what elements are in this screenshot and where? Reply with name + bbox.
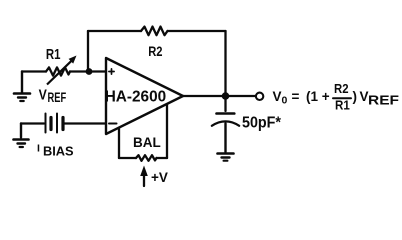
output wire from op-amp to terminal bbox=[183, 95, 256, 97]
wire R1 left lead bbox=[22, 70, 46, 72]
+V arrow head bbox=[140, 166, 148, 177]
svg-text:0: 0 bbox=[282, 95, 288, 107]
+V arrow shaft bbox=[143, 174, 145, 186]
svg-text:R2: R2 bbox=[334, 82, 349, 96]
ground under battery bbox=[14, 138, 29, 141]
svg-text:REF: REF bbox=[48, 90, 67, 105]
wire left vertical from node A to top wire bbox=[87, 31, 89, 72]
output terminal open circle bbox=[256, 93, 263, 100]
wire top feedback left segment bbox=[88, 30, 141, 32]
wire capacitor to ground bbox=[224, 124, 226, 153]
svg-text:(1 +: (1 + bbox=[306, 89, 330, 104]
svg-text:R1: R1 bbox=[46, 46, 61, 63]
wire battery left lead bbox=[21, 122, 44, 124]
op-amp + input mark bbox=[109, 69, 114, 74]
op-amp - input mark bbox=[109, 123, 117, 125]
node B junction dot bbox=[222, 92, 230, 100]
svg-text:HA-2600: HA-2600 bbox=[105, 88, 167, 105]
svg-text:R2: R2 bbox=[148, 43, 162, 59]
capacitor C top plate bbox=[217, 112, 235, 115]
resistor R2 bbox=[141, 27, 168, 36]
BAL box left side bbox=[118, 128, 120, 158]
wire feedback right vertical bbox=[224, 31, 226, 96]
svg-text:V: V bbox=[39, 88, 47, 104]
wire BAL box bottom right segment bbox=[157, 157, 168, 159]
resistor R1 (variable) bbox=[46, 67, 70, 75]
op-amp U1 triangle bbox=[106, 58, 183, 134]
node A junction dot bbox=[86, 68, 93, 75]
BAL box bottom with resistor bbox=[119, 157, 136, 159]
wire battery right lead to op-amp - input bbox=[63, 122, 106, 124]
svg-text:V: V bbox=[273, 89, 282, 104]
ground under R1 left lead bbox=[21, 72, 23, 94]
svg-text:+V: +V bbox=[151, 170, 168, 185]
wire down from battery left to ground bbox=[20, 124, 22, 138]
wire node B down to capacitor bbox=[224, 96, 226, 111]
svg-text:=: = bbox=[292, 89, 300, 104]
arrow of variable resistor R1 bbox=[47, 61, 72, 85]
svg-text:BAL: BAL bbox=[133, 135, 161, 150]
wire top feedback right segment bbox=[168, 30, 226, 32]
battery IBIAS plates bbox=[45, 114, 47, 133]
BAL box right side bbox=[166, 104, 168, 158]
ground under capacitor bbox=[218, 152, 234, 155]
svg-text:R1: R1 bbox=[335, 99, 350, 113]
svg-text:50pF*: 50pF* bbox=[242, 115, 282, 132]
svg-text:I: I bbox=[37, 143, 40, 155]
svg-text:BIAS: BIAS bbox=[43, 144, 74, 159]
wire R1 right lead to op-amp + input bbox=[70, 70, 106, 72]
svg-text:REF: REF bbox=[368, 94, 399, 108]
svg-text:): ) bbox=[353, 89, 358, 104]
resistor in BAL network bbox=[136, 155, 157, 161]
capacitor C bottom curved plate bbox=[212, 121, 239, 125]
fraction bar R2/R1 in formula bbox=[333, 97, 351, 99]
